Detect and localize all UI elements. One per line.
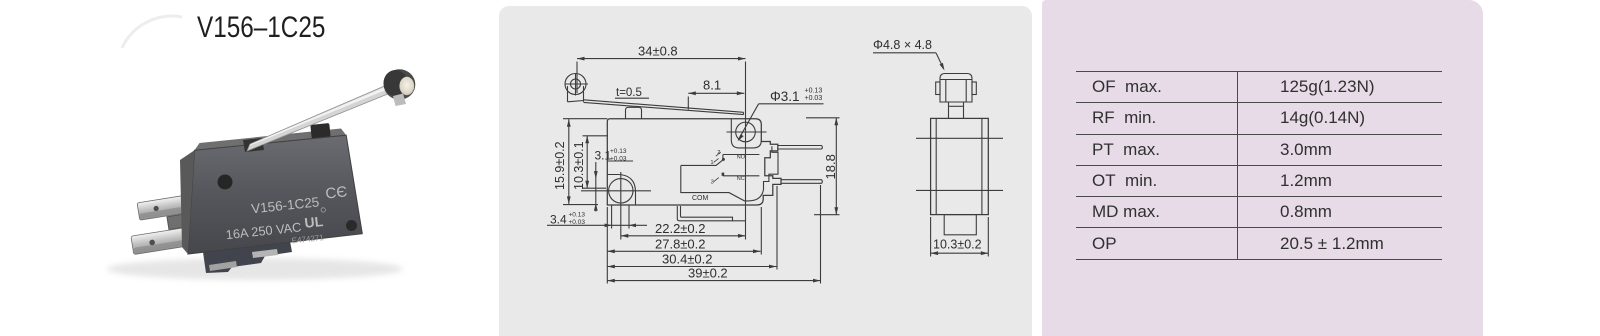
label t=0.5 (615, 87, 649, 99)
top-right mounting hole Φ3.1 (727, 122, 767, 142)
spec table (1076, 71, 1442, 259)
svg-text:UL: UL (304, 213, 325, 231)
dimension 18.8 (right) (806, 118, 840, 215)
dimension 10.3±0.2 (931, 217, 989, 257)
bent COM terminal (bottom) (677, 206, 746, 221)
svg-text:3.4: 3.4 (550, 213, 567, 227)
roller wheel dark rim (384, 69, 416, 99)
plunger button (310, 123, 330, 139)
svg-text:3: 3 (711, 180, 714, 186)
dimension 30.4±0.2 (607, 186, 777, 270)
switch body top face (195, 129, 347, 151)
switch body outline (607, 119, 781, 205)
bottom mounting bracket (203, 241, 292, 273)
faint watermark arc (122, 16, 182, 48)
roller (front view) (936, 74, 977, 103)
left end face (180, 150, 195, 254)
terminal 2 (right, NC) (781, 180, 822, 184)
svg-text:1: 1 (710, 160, 713, 166)
pin number 2 (716, 150, 721, 156)
roller (side view) (565, 73, 589, 102)
dimension 10.3±0.1 (left) (572, 136, 608, 190)
svg-text:18.8: 18.8 (823, 154, 838, 179)
svg-text:NO: NO (737, 155, 746, 161)
title V156-1C25 (197, 11, 325, 45)
svg-text:CЄ: CЄ (325, 183, 348, 202)
dimension 15.9±0.2 (left) (553, 119, 607, 205)
label Φ4.8 × 4.8 (873, 38, 945, 71)
dimension 39±0.2 (607, 185, 820, 284)
hole centerline (upper) (916, 137, 1003, 139)
gray drawing panel (499, 6, 1032, 336)
hole edge extension lines (3.4) (612, 206, 629, 229)
lever (side view, t=0.5) (584, 100, 744, 115)
plunger bump (626, 107, 642, 118)
svg-text:10.3±0.1: 10.3±0.1 (572, 141, 586, 190)
svg-text:22.2±0.2: 22.2±0.2 (655, 221, 706, 236)
lower-left mounting boss (607, 175, 635, 206)
svg-text:+0.03: +0.03 (805, 95, 823, 102)
svg-text:15.9±0.2: 15.9±0.2 (553, 141, 567, 190)
dimension 34±0.8 (577, 44, 746, 240)
dimension 22.2±0.2 (621, 221, 746, 238)
NC contact (722, 173, 760, 182)
top-right mounting boss (731, 119, 761, 148)
body text (222, 183, 352, 252)
terminal blade 2 (lower) (131, 224, 209, 254)
bottom terminal block (944, 215, 976, 235)
svg-text:t=0.5: t=0.5 (616, 87, 642, 99)
COM blade (681, 158, 725, 166)
roller fork tip (393, 94, 406, 107)
pink spec panel (1042, 0, 1483, 336)
svg-text:Φ4.8 × 4.8: Φ4.8 × 4.8 (873, 38, 932, 52)
lower-left mounting hole (581, 172, 651, 240)
small dot bottom-right (346, 220, 357, 231)
svg-text:10.3±0.2: 10.3±0.2 (933, 238, 982, 252)
svg-text:3.1: 3.1 (595, 149, 612, 163)
pin number 3 (711, 178, 719, 186)
NO contact (723, 155, 760, 161)
svg-text:+0.13: +0.13 (610, 148, 627, 155)
lever arm (247, 81, 400, 151)
dimension 27.8±0.2 (607, 207, 761, 255)
terminal 1 (right, NO) (778, 146, 823, 150)
pin number 1 (710, 158, 718, 165)
dimension 8.1 (688, 78, 744, 110)
recess circle top-left (218, 175, 233, 190)
internal cavity outline (681, 146, 778, 201)
body (front view) (931, 118, 989, 214)
lever shank (front view) (949, 102, 964, 118)
hinge clip (243, 138, 264, 152)
soft shadow under switch (107, 258, 403, 280)
terminal blade 1 (upper) (137, 192, 211, 221)
terminal blade middle (back) (167, 211, 205, 229)
svg-text:39±0.2: 39±0.2 (688, 266, 728, 281)
svg-text:Φ3.1: Φ3.1 (770, 89, 800, 104)
svg-text:30.4±0.2: 30.4±0.2 (662, 252, 713, 267)
switch body front face (188, 135, 362, 254)
label 3.1 +0.13/+0.03 (lower hole) (594, 148, 633, 212)
svg-text:8.1: 8.1 (703, 78, 721, 93)
svg-text:+0.13: +0.13 (569, 212, 586, 219)
label Φ3.1 +0.13/+0.03 (top hole) (738, 88, 824, 142)
svg-text:+0.13: +0.13 (805, 88, 823, 95)
hole centerline (lower) (916, 189, 1003, 191)
roller light face (399, 77, 414, 95)
svg-text:34±0.8: 34±0.8 (638, 44, 678, 59)
label 3.4 +0.13/+0.03 with dimension (547, 212, 647, 228)
svg-text:NC: NC (737, 176, 745, 182)
svg-text:27.8±0.2: 27.8±0.2 (655, 236, 706, 251)
svg-text:COM: COM (692, 195, 709, 202)
